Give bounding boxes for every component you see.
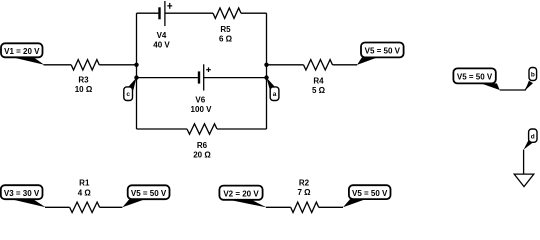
probe label V2 = 20 V (219, 186, 266, 208)
node c (124, 78, 137, 101)
svg-text:5 Ω: 5 Ω (312, 86, 326, 95)
svg-text:V5 = 50 V: V5 = 50 V (365, 47, 401, 56)
svg-text:4 Ω: 4 Ω (78, 188, 92, 197)
probe label V5 = 50 V (bottom left) (122, 185, 169, 207)
wire R1 to V5 (100, 206, 123, 208)
svg-text:V2 = 20 V: V2 = 20 V (223, 189, 259, 198)
svg-text:40 V: 40 V (153, 40, 170, 49)
wire R5 to top-right corner (241, 12, 267, 14)
svg-text:V5 = 50 V: V5 = 50 V (457, 73, 493, 82)
svg-text:V1 = 20 V: V1 = 20 V (4, 47, 40, 56)
probe label V1 = 20 V (1, 43, 44, 65)
node d (524, 129, 537, 150)
svg-text:V4: V4 (157, 31, 167, 40)
node a (267, 78, 279, 101)
svg-text:V5 = 50 V: V5 = 50 V (131, 189, 167, 198)
wire V3 to R1 (45, 206, 70, 208)
svg-text:R3: R3 (78, 75, 89, 84)
wire V1 to R3 (44, 64, 72, 66)
resistor R3 (71, 60, 99, 94)
svg-text:c: c (126, 91, 130, 98)
svg-text:R6: R6 (197, 141, 208, 150)
svg-text:R4: R4 (313, 76, 324, 85)
svg-text:R1: R1 (79, 179, 90, 188)
wire top-left corner to V4 (137, 12, 159, 14)
resistor R4 (304, 60, 333, 95)
svg-text:20 Ω: 20 Ω (193, 150, 211, 159)
wire V4 to R5 (165, 12, 213, 14)
wire V5 to node b (500, 83, 530, 90)
battery V6 100 V (191, 64, 213, 114)
svg-text:100 V: 100 V (191, 105, 213, 114)
svg-text:d: d (531, 133, 535, 140)
wire d to ground (523, 150, 525, 175)
wire R6 to bottom-right corner (217, 128, 267, 130)
junction dot R4 row (264, 63, 268, 67)
svg-text:V5 = 50 V: V5 = 50 V (352, 189, 388, 198)
svg-text:6 Ω: 6 Ω (219, 34, 233, 43)
wire bottom-left corner to R6 (137, 128, 188, 130)
svg-text:a: a (273, 91, 277, 98)
probe label V3 = 30 V (1, 185, 46, 207)
ground (514, 174, 534, 187)
probe label V5 = 50 V (far right) (453, 68, 499, 90)
resistor R5 (213, 8, 241, 43)
resistor R2 (291, 179, 319, 213)
resistor R1 (70, 179, 100, 213)
battery V4 40 V (153, 1, 172, 49)
svg-text:R2: R2 (299, 179, 310, 188)
svg-text:10 Ω: 10 Ω (75, 85, 93, 94)
left vertical wire (136, 13, 138, 129)
wire V2 to R2 (266, 206, 291, 208)
probe label V5 = 50 V (top right) (357, 43, 404, 65)
wire a junction to R4 (267, 64, 304, 66)
probe label V5 = 50 V (bottom middle) (343, 185, 391, 207)
node b (525, 68, 536, 91)
right vertical wire (266, 13, 268, 129)
resistor R6 (187, 124, 217, 160)
junction dot node c (134, 75, 138, 79)
svg-text:R5: R5 (220, 25, 231, 34)
wire R2 to V5 (319, 206, 343, 208)
wire c junction to V6 (137, 77, 198, 79)
svg-text:b: b (531, 72, 535, 79)
wire V6 to a junction (204, 77, 267, 79)
svg-text:V3 = 30 V: V3 = 30 V (4, 189, 40, 198)
wire R3 to left vertical (99, 64, 136, 66)
svg-text:7 Ω: 7 Ω (297, 188, 311, 197)
junction dot at node c column top (134, 63, 138, 67)
svg-text:V6: V6 (195, 96, 205, 105)
junction dot node a (264, 75, 268, 79)
wire R4 to V5 flag (333, 64, 358, 66)
